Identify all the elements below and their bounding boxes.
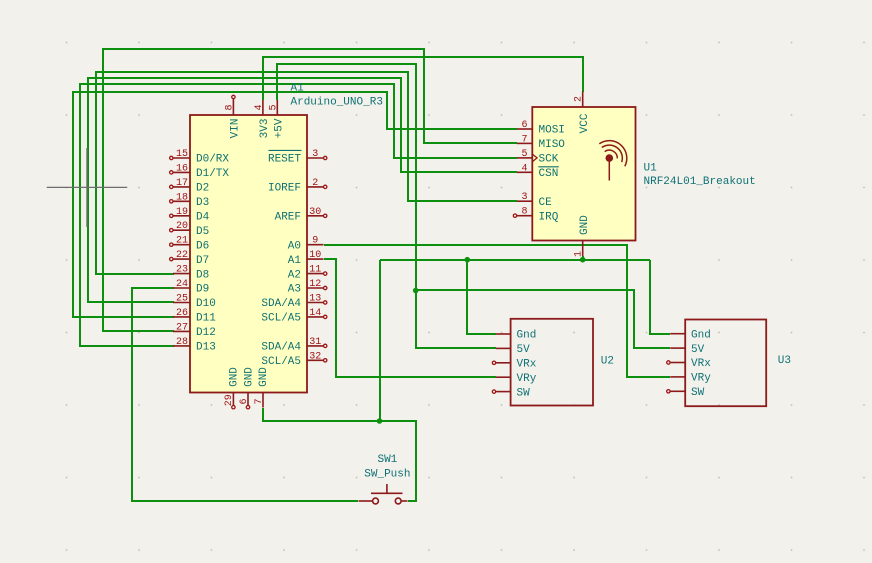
NRF24L01 body U1: [532, 107, 635, 241]
U1 pin 1 GND (bottom): [574, 215, 591, 257]
svg-text:20: 20: [176, 221, 188, 232]
svg-text:U2: U2: [601, 356, 614, 368]
svg-text:VRy: VRy: [517, 373, 537, 385]
pin 13 SDA/A4 (right): [261, 294, 327, 311]
wire GND bus to U2 Gnd: [467, 260, 496, 334]
Arduino UNO body A1: [190, 115, 307, 393]
junction J1: [413, 288, 419, 294]
svg-text:10: 10: [309, 250, 321, 261]
pin 20 D5 (left): [170, 221, 210, 238]
svg-text:SW: SW: [517, 387, 531, 399]
pin 9 A0 (right): [288, 236, 324, 253]
wire 3V3 to U1 VCC: [263, 57, 583, 100]
svg-text:IOREF: IOREF: [268, 183, 301, 195]
label Arduino_UNO_R3 value: [291, 96, 383, 108]
label U1 reference: [644, 162, 658, 174]
wire GND bus to U3 Gnd: [650, 260, 670, 334]
svg-text:4: 4: [254, 104, 265, 110]
svg-text:VRy: VRy: [691, 373, 711, 385]
svg-text:D11: D11: [196, 313, 216, 325]
svg-text:5: 5: [521, 149, 527, 160]
pin 23 D8 (left): [173, 265, 209, 282]
pin 6 GND (bottom): [239, 367, 255, 409]
U2 pin VRx: [492, 359, 536, 371]
pin 5 +5V (top): [269, 100, 286, 138]
U1 pin 5 SCK: [517, 149, 559, 166]
svg-text:A2: A2: [288, 269, 301, 281]
svg-text:18: 18: [176, 192, 188, 203]
svg-text:A1: A1: [288, 255, 302, 267]
label A1 reference: [291, 82, 305, 94]
U2 pin VRy: [496, 373, 537, 385]
svg-text:4: 4: [521, 163, 527, 174]
cursor crosshair: [47, 148, 128, 227]
svg-text:SW_Push: SW_Push: [364, 469, 410, 481]
svg-text:MOSI: MOSI: [539, 125, 565, 137]
svg-text:AREF: AREF: [275, 212, 301, 224]
svg-text:CE: CE: [539, 197, 553, 209]
svg-text:31: 31: [309, 337, 321, 348]
U1 pin 3 CE: [517, 192, 552, 209]
svg-text:3V3: 3V3: [259, 119, 271, 139]
pin 10 A1 (right): [288, 250, 324, 267]
svg-text:27: 27: [176, 322, 188, 333]
svg-text:D0/RX: D0/RX: [196, 154, 229, 166]
svg-text:GND: GND: [258, 367, 270, 387]
pin 15 D0/RX (left): [170, 149, 230, 166]
wire A0 to U3 VRy: [324, 245, 670, 377]
svg-text:2: 2: [312, 178, 318, 189]
pin 17 D2 (left): [170, 178, 210, 195]
switch SW1 left contact: [359, 498, 379, 504]
svg-text:8: 8: [521, 207, 527, 218]
pin 25 D10 (left): [173, 294, 216, 311]
svg-text:SW: SW: [691, 387, 705, 399]
switch SW1 actuator bar: [371, 484, 403, 493]
pin 31 SDA/A4 (right): [261, 337, 327, 354]
U2 pin Gnd: [496, 330, 537, 342]
pin 3 RESET (right): [268, 149, 327, 166]
svg-text:1: 1: [574, 251, 585, 257]
label NRF24L01_Breakout value: [644, 176, 756, 188]
svg-text:CSN: CSN: [539, 168, 559, 180]
svg-text:23: 23: [176, 265, 188, 276]
wire +5V branch to U3 5V: [416, 290, 670, 348]
wire D9 to SW1: [132, 288, 358, 501]
svg-text:VCC: VCC: [579, 113, 591, 133]
svg-text:D10: D10: [196, 298, 216, 310]
svg-text:22: 22: [176, 250, 188, 261]
U1 pin 8 IRQ: [513, 207, 558, 224]
svg-text:VIN: VIN: [230, 119, 242, 139]
svg-text:28: 28: [176, 337, 188, 348]
svg-text:7: 7: [521, 134, 527, 145]
svg-text:D3: D3: [196, 197, 209, 209]
svg-text:Gnd: Gnd: [517, 330, 537, 342]
joystick module body U2: [511, 319, 593, 406]
svg-text:D8: D8: [196, 269, 209, 281]
pin 27 D12 (left): [173, 322, 216, 339]
wire D13 to U1 SCK: [80, 84, 517, 346]
svg-text:14: 14: [309, 308, 321, 319]
svg-text:SCL/A5: SCL/A5: [261, 356, 301, 368]
pin 2 IOREF (right): [268, 178, 327, 195]
wire pin7 GND to SW1 right: [263, 408, 416, 501]
svg-text:VRx: VRx: [517, 359, 537, 371]
svg-text:D4: D4: [196, 212, 210, 224]
pin 21 D6 (left): [170, 236, 210, 253]
pin 32 SCL/A5 (right): [261, 351, 327, 368]
U2 pin SW: [492, 387, 530, 399]
pin 7 GND (bottom): [254, 367, 270, 408]
svg-text:15: 15: [176, 149, 188, 160]
U1 antenna symbol: [599, 141, 627, 181]
pin 18 D3 (left): [170, 192, 210, 209]
svg-text:5: 5: [269, 104, 280, 110]
wire +5V to U2 5V: [277, 64, 496, 348]
pin 30 AREF (right): [275, 207, 327, 224]
svg-text:D5: D5: [196, 226, 209, 238]
svg-text:A0: A0: [288, 240, 301, 252]
wire D12 to U1 MISO: [103, 49, 517, 331]
svg-text:A1: A1: [291, 82, 305, 94]
svg-text:D1/TX: D1/TX: [196, 168, 229, 180]
svg-text:9: 9: [312, 236, 318, 247]
U1 pin 7 MISO: [517, 134, 566, 151]
junction J2: [465, 257, 471, 263]
svg-text:3: 3: [521, 192, 527, 203]
svg-text:SDA/A4: SDA/A4: [261, 298, 301, 310]
junction J3: [580, 257, 586, 263]
label SW_Push value: [364, 469, 410, 481]
svg-text:3: 3: [312, 149, 318, 160]
svg-text:D7: D7: [196, 255, 209, 267]
svg-text:24: 24: [176, 279, 188, 290]
U1 pin 2 VCC (top): [574, 92, 591, 134]
svg-text:GND: GND: [243, 367, 255, 387]
wire GND bus down to junction: [379, 260, 381, 421]
svg-text:D9: D9: [196, 284, 209, 296]
label SW1 reference: [377, 454, 397, 466]
pin 22 D7 (left): [170, 250, 210, 267]
svg-text:NRF24L01_Breakout: NRF24L01_Breakout: [644, 176, 756, 188]
svg-text:D12: D12: [196, 327, 216, 339]
svg-text:21: 21: [176, 236, 188, 247]
U3 pin VRx: [667, 358, 712, 370]
svg-text:SDA/A4: SDA/A4: [261, 342, 301, 354]
junction J4: [377, 418, 383, 424]
svg-text:32: 32: [309, 351, 321, 362]
svg-text:30: 30: [309, 207, 321, 218]
U3 pin VRy: [670, 373, 711, 385]
label U3 reference: [778, 355, 791, 367]
svg-text:16: 16: [176, 163, 188, 174]
svg-text:29: 29: [224, 394, 235, 406]
switch SW1 right contact: [395, 498, 407, 504]
pin 24 D9 (left): [173, 279, 209, 296]
wire D8 to U1 CE: [96, 72, 517, 274]
wire D10 to U1 CSN: [88, 78, 517, 302]
pin 19 D4 (left): [170, 207, 210, 224]
svg-text:17: 17: [176, 178, 188, 189]
svg-text:IRQ: IRQ: [539, 211, 559, 223]
wire D11 to U1 MOSI: [73, 92, 517, 317]
pin 4 3V3 (top): [254, 100, 271, 138]
svg-text:25: 25: [176, 294, 188, 305]
svg-text:D13: D13: [196, 342, 216, 354]
svg-text:SCK: SCK: [539, 154, 559, 166]
joystick module body U3: [685, 320, 766, 407]
svg-text:8: 8: [225, 104, 236, 110]
svg-text:6: 6: [521, 120, 527, 131]
svg-text:+5V: +5V: [274, 118, 286, 138]
svg-text:D6: D6: [196, 240, 209, 252]
pin 26 D11 (left): [173, 308, 216, 325]
svg-text:26: 26: [176, 308, 188, 319]
svg-text:RESET: RESET: [268, 154, 301, 166]
svg-text:GND: GND: [579, 215, 591, 235]
U1 pin 6 MOSI: [517, 120, 565, 137]
U3 pin 5V: [670, 344, 704, 356]
svg-text:13: 13: [309, 294, 321, 305]
U3 pin SW: [667, 387, 705, 399]
svg-text:Gnd: Gnd: [691, 329, 711, 341]
svg-text:2: 2: [574, 96, 585, 102]
svg-text:GND: GND: [229, 367, 241, 387]
svg-text:19: 19: [176, 207, 188, 218]
svg-text:5V: 5V: [517, 344, 531, 356]
svg-text:D2: D2: [196, 183, 209, 195]
wire GND bus horizontal: [380, 259, 650, 261]
pin 29 GND (bottom): [224, 367, 241, 409]
svg-text:SW1: SW1: [377, 454, 397, 466]
svg-text:12: 12: [309, 279, 321, 290]
svg-text:Arduino_UNO_R3: Arduino_UNO_R3: [291, 96, 383, 108]
svg-text:6: 6: [239, 398, 250, 404]
svg-text:U3: U3: [778, 355, 791, 367]
svg-text:11: 11: [309, 265, 321, 276]
svg-text:7: 7: [254, 398, 265, 404]
svg-text:U1: U1: [644, 162, 658, 174]
label U2 reference: [601, 356, 614, 368]
svg-text:VRx: VRx: [691, 358, 711, 370]
pin 14 SCL/A5 (right): [261, 308, 327, 325]
U2 pin 5V: [496, 344, 530, 356]
wire A1 to U2 VRy: [324, 259, 496, 377]
pin 12 A3 (right): [288, 279, 327, 296]
U1 pin 4 CSN: [517, 163, 559, 180]
pin 16 D1/TX (left): [170, 163, 230, 180]
wire U1 GND tail: [582, 256, 584, 260]
U3 pin Gnd: [670, 329, 711, 341]
svg-text:5V: 5V: [691, 344, 705, 356]
svg-text:MISO: MISO: [539, 139, 566, 151]
pin 8 VIN (top): [225, 95, 242, 138]
pin 11 A2 (right): [288, 265, 327, 282]
pin 28 D13 (left): [173, 337, 216, 354]
svg-text:SCL/A5: SCL/A5: [261, 313, 301, 325]
svg-text:A3: A3: [288, 284, 301, 296]
